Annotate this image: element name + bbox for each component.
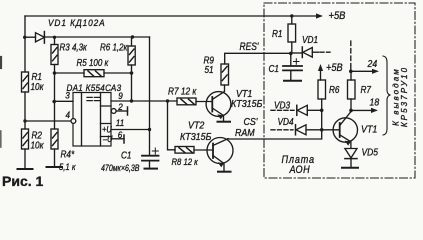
svg-text:R8 12 к: R8 12 к	[172, 156, 199, 167]
diode VD1 (КД102А)	[36, 33, 45, 42]
svg-text:VD4: VD4	[278, 116, 294, 127]
svg-text:VD1 КД102А: VD1 КД102А	[48, 18, 106, 29]
node dot left rail/diode	[23, 36, 26, 39]
svg-text:R7 12 к: R7 12 к	[168, 86, 197, 97]
wire arrow 24	[351, 70, 373, 72]
node dot pin11/C1	[148, 128, 151, 131]
svg-text:RES': RES'	[240, 41, 260, 53]
transistor Q1 VT1 КТ315Б	[206, 92, 231, 117]
capacitor C1 board	[290, 53, 292, 65]
ground under VT1	[218, 121, 231, 123]
node dot R5/R6	[130, 71, 134, 75]
svg-text:КТ315Б: КТ315Б	[180, 131, 211, 143]
svg-text:+5В: +5В	[329, 10, 346, 22]
node dot pin9/R8 branch	[166, 99, 169, 102]
node dot rail/R1 board	[290, 14, 293, 17]
pin 11	[111, 129, 150, 131]
wire diode row	[25, 36, 150, 38]
svg-text:R3 4,3к: R3 4,3к	[60, 42, 88, 53]
svg-text:4: 4	[66, 110, 71, 121]
op-amp U1 DA1 К554СА3 comparator box	[73, 93, 111, 147]
ground under R2	[18, 168, 33, 170]
svg-text:6: 6	[118, 130, 123, 141]
pin 3	[55, 100, 74, 102]
wire left rail	[24, 16, 26, 169]
wire R5 row	[55, 72, 132, 74]
node dot R7/collector	[349, 109, 353, 113]
svg-text:АОН: АОН	[289, 164, 311, 176]
node dot R3/R5	[53, 71, 57, 75]
wire dashed to pin 24	[350, 41, 352, 66]
svg-text:R5 100 к: R5 100 к	[77, 57, 109, 68]
svg-text:24: 24	[367, 58, 378, 70]
svg-text:КР537РУ10: КР537РУ10	[400, 66, 409, 127]
resistor R2	[22, 129, 29, 149]
resistor R6 board	[318, 80, 326, 99]
svg-text:КТ315Б: КТ315Б	[231, 98, 262, 110]
svg-text:10к: 10к	[31, 140, 45, 151]
svg-text:R7: R7	[361, 84, 372, 95]
wire R6 to output	[131, 73, 133, 101]
pin 9 output	[111, 100, 177, 102]
wire CS' RAM	[228, 130, 322, 139]
transistor Q2 VT2 КТ315Б	[207, 138, 233, 164]
diode VD3	[271, 109, 294, 111]
svg-text:VT2: VT2	[188, 120, 205, 132]
svg-text:9: 9	[118, 91, 123, 102]
svg-text:VD5: VD5	[362, 147, 379, 158]
wire R8 branch	[168, 101, 176, 150]
svg-text:C1: C1	[269, 63, 279, 74]
resistor R7 12к	[177, 98, 196, 105]
pin 6	[111, 138, 124, 140]
brace to КР537РУ10	[383, 56, 391, 135]
ground under VD5	[342, 167, 358, 169]
pin 4	[25, 120, 71, 122]
node dot rail/R6	[131, 35, 134, 38]
resistor R7 board	[350, 71, 352, 80]
diode VD1 board	[293, 52, 303, 54]
svg-text:51: 51	[205, 64, 214, 75]
svg-text:R6: R6	[329, 84, 340, 95]
svg-text:Рис. 1: Рис. 1	[2, 173, 44, 189]
board АОН dashed border	[264, 3, 415, 178]
resistor R8 12к	[175, 147, 194, 154]
svg-text:VD1: VD1	[302, 34, 318, 45]
diode VD4	[271, 129, 293, 131]
wire +U supply drop	[149, 37, 151, 130]
node dot VD3/R6	[320, 109, 324, 113]
resistor R4	[51, 129, 58, 149]
svg-text:C1: C1	[121, 150, 131, 161]
svg-text:VT1: VT1	[361, 124, 377, 136]
node dot R7 top	[349, 70, 353, 74]
wire arrow 18	[351, 109, 372, 111]
node dot diode/R3	[53, 36, 56, 39]
node dot VD4/R6/base	[320, 128, 324, 132]
svg-text:R1: R1	[272, 28, 282, 39]
svg-text:11: 11	[116, 118, 125, 129]
wire +5V top rail	[25, 15, 317, 17]
ground under C1 board	[284, 80, 301, 82]
pin 2	[111, 109, 116, 114]
wire RES'	[225, 53, 291, 64]
svg-text:470мк×6,3В: 470мк×6,3В	[101, 163, 140, 173]
resistor R6 1,2к	[131, 37, 133, 73]
wire R3 column	[54, 37, 56, 167]
svg-text:VD3: VD3	[274, 100, 291, 111]
resistor R5	[84, 70, 104, 77]
resistor R1	[22, 72, 29, 92]
resistor R9 51	[221, 64, 229, 85]
ground under C1	[145, 168, 158, 170]
svg-text:2: 2	[117, 102, 123, 113]
svg-text:DA1 К554СА3: DA1 К554СА3	[67, 82, 122, 93]
svg-text:R6 1,2к: R6 1,2к	[100, 42, 128, 53]
diode VD5	[345, 149, 357, 158]
svg-text:18: 18	[370, 97, 380, 109]
resistor R3	[51, 45, 58, 65]
svg-text:3: 3	[65, 90, 70, 101]
svg-text:RAM: RAM	[235, 127, 256, 139]
capacitor C1 470мк	[149, 130, 151, 156]
node +5V arrow	[316, 13, 323, 18]
edge artifact marks	[0, 57, 2, 68]
svg-text:R4*: R4*	[61, 149, 75, 160]
resistor R1 board	[291, 16, 293, 53]
svg-text:+5В: +5В	[326, 63, 343, 75]
ground under VT2	[218, 171, 231, 173]
node +5V arrow board	[320, 67, 322, 80]
transistor VT1 board	[333, 118, 357, 142]
node dot RES/R1/C1/VD1	[289, 52, 293, 56]
node dot output/R6	[130, 99, 133, 102]
ground under R4	[47, 166, 63, 168]
wire R6 bottom column	[321, 99, 323, 130]
svg-text:10к: 10к	[31, 81, 45, 92]
